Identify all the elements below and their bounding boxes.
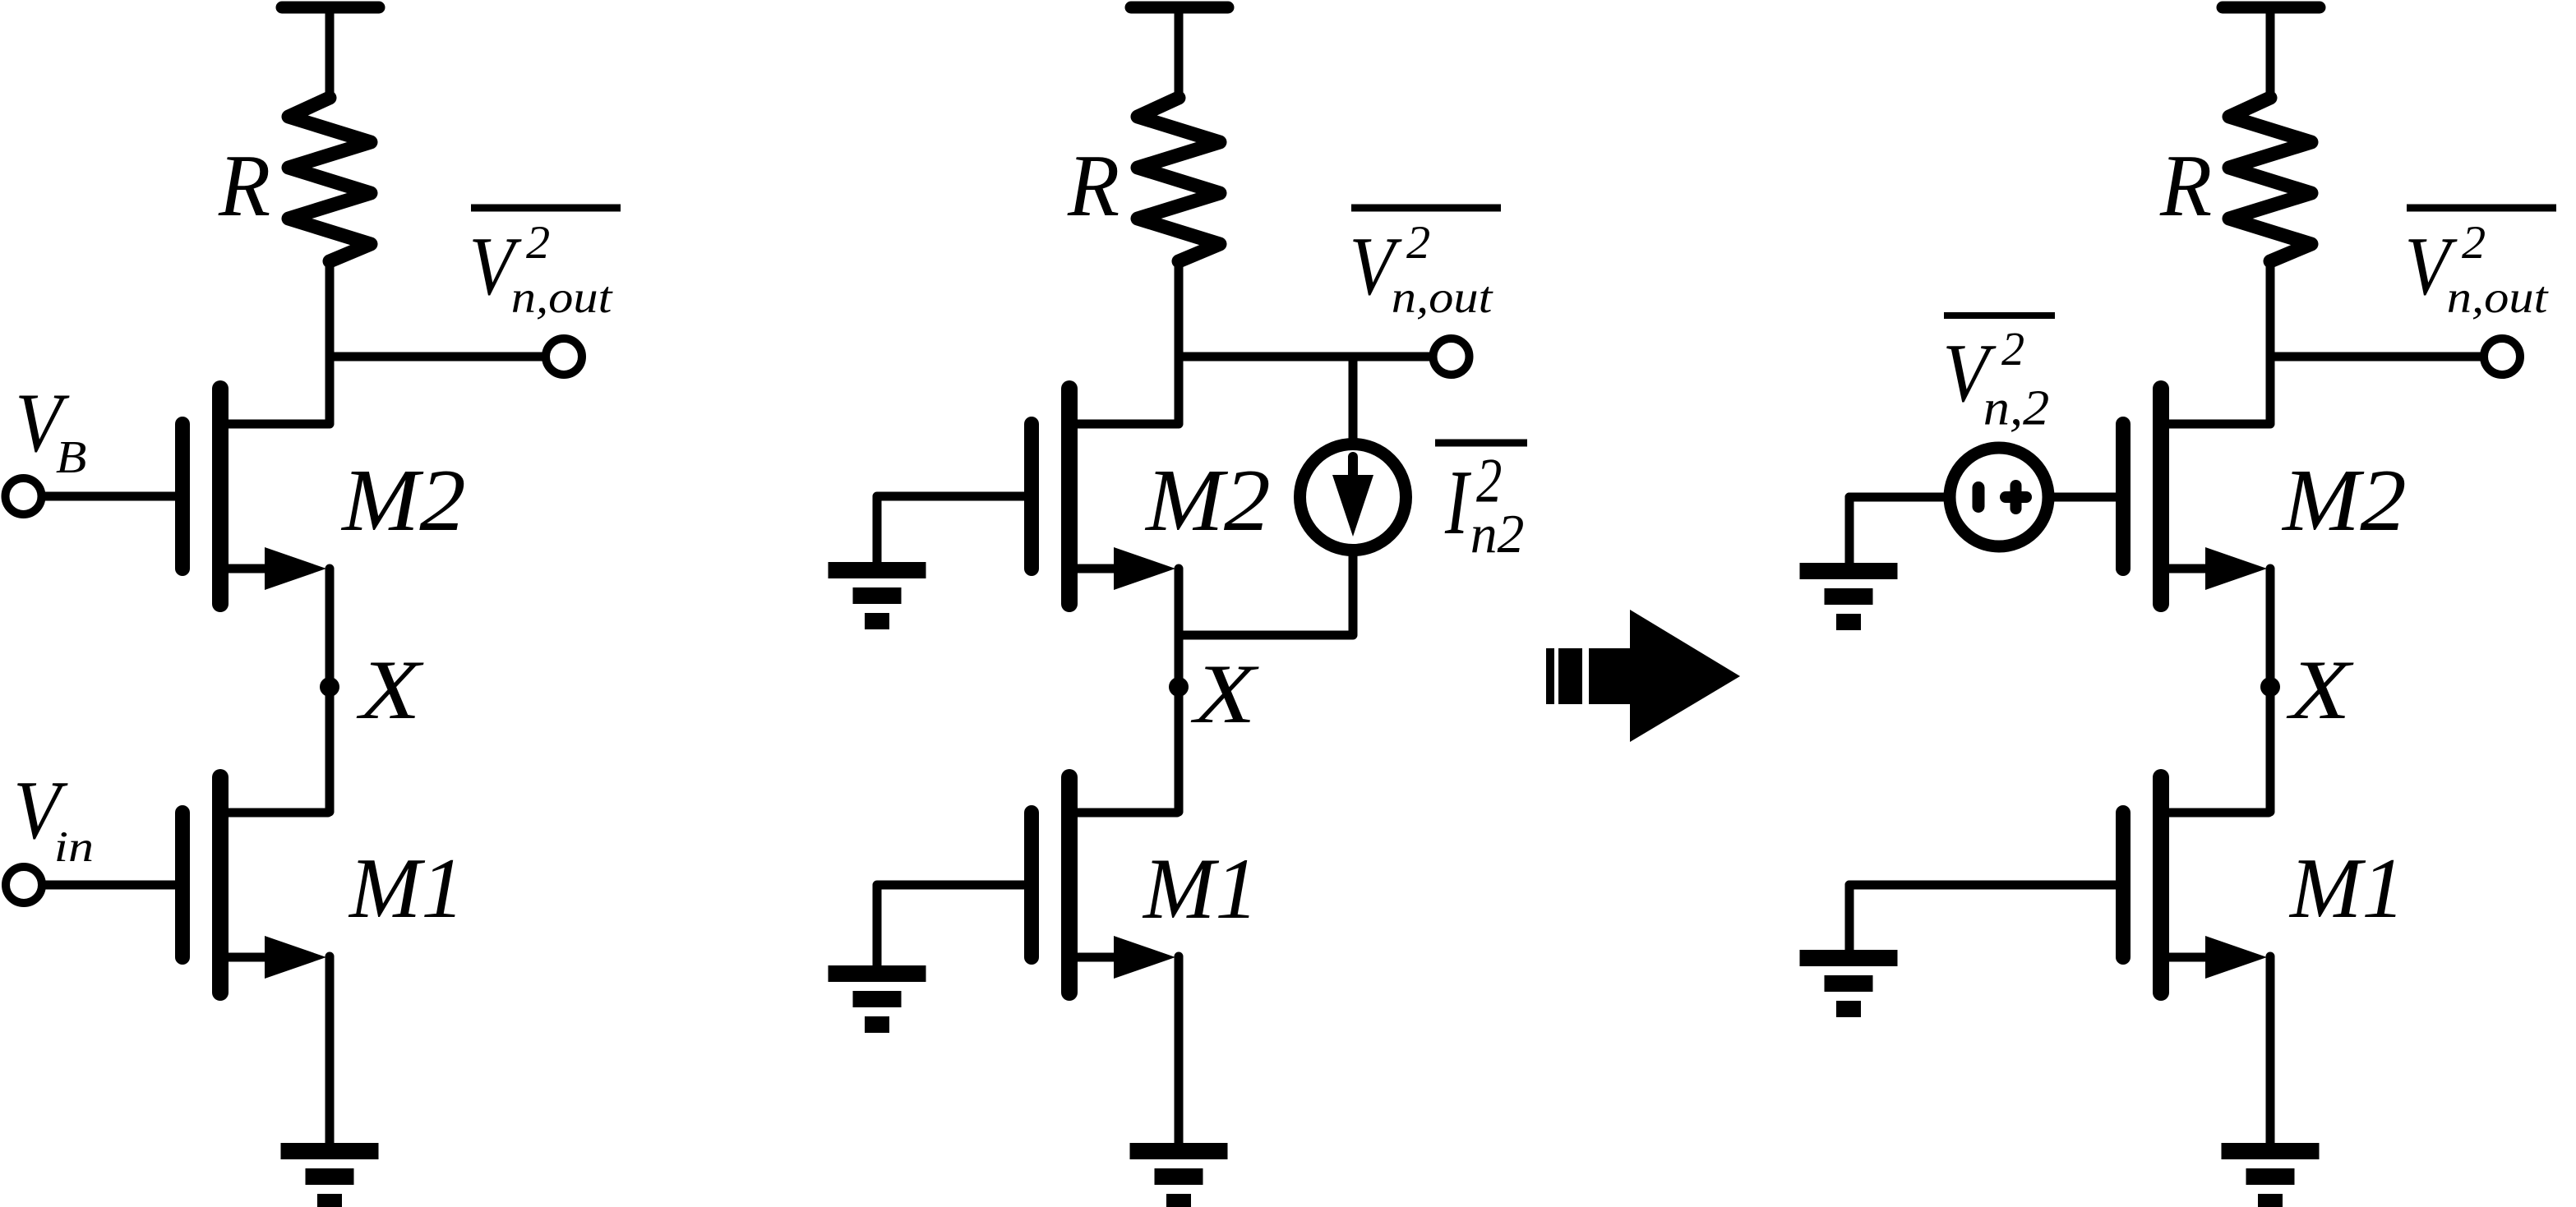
- label V^2_n,2 overline (right circuit): [1944, 312, 2055, 319]
- ground middle circuit M2 gate bar 2: [853, 587, 902, 604]
- svg-text:R: R: [218, 136, 270, 234]
- transistor M2 right source wire: [2165, 564, 2219, 574]
- svg-text:in: in: [54, 823, 94, 871]
- output terminal circle (left circuit): [546, 339, 582, 375]
- transform arrow shaft: [1589, 648, 1630, 704]
- wire M2 gate to ground (middle circuit): [877, 496, 1032, 565]
- transistor M1 right gate bar: [2116, 813, 2131, 957]
- svg-text:X: X: [356, 643, 424, 737]
- VDD supply rail bar (left circuit): [282, 2, 379, 14]
- transistor M2 left channel bar: [212, 389, 229, 604]
- transistor M2 middle source wire: [1073, 564, 1128, 574]
- VDD supply rail bar (right circuit): [2223, 2, 2320, 14]
- svg-text:2: 2: [526, 218, 550, 269]
- svg-text:M2: M2: [2281, 451, 2407, 549]
- ground middle circuit M1 gate bar 3: [865, 1016, 889, 1033]
- noise current source I^2_n2 circle (middle circuit): [1300, 445, 1406, 551]
- wire output node to terminal (left circuit): [330, 352, 546, 362]
- ground middle circuit M2 gate bar 3: [865, 613, 889, 629]
- transistor M2 right drain wire: [2165, 420, 2269, 429]
- svg-text:X: X: [2286, 643, 2354, 737]
- wire V_B to M2 gate (left circuit): [44, 492, 182, 501]
- wire VDD to resistor (middle circuit): [1175, 10, 1184, 99]
- resistor R (middle circuit): [1138, 98, 1220, 261]
- output terminal circle (right circuit): [2484, 339, 2520, 375]
- svg-text:R: R: [2159, 136, 2212, 234]
- current source arrow head (middle circuit): [1332, 475, 1373, 537]
- wire resistor to M2 drain (middle circuit): [1175, 260, 1184, 424]
- wire resistor to M2 drain (left circuit): [325, 260, 335, 424]
- transistor M1 middle source arrow: [1114, 936, 1175, 979]
- transistor M1 middle channel bar: [1061, 777, 1078, 993]
- wire M1 source to ground (right circuit): [2266, 956, 2275, 1146]
- svg-text:X: X: [1190, 647, 1258, 741]
- svg-text:M1: M1: [2288, 841, 2405, 936]
- ground right circuit M2 gate bar 2: [1825, 588, 1873, 605]
- ground right circuit main bar 2: [2246, 1168, 2295, 1185]
- voltage source minus mark (right circuit): [1973, 488, 1985, 507]
- wire M1 gate to ground (middle circuit): [877, 885, 1032, 969]
- wire ground to noise source (right circuit): [1849, 493, 1948, 502]
- svg-text:2: 2: [1406, 218, 1430, 269]
- transistor M1 right source wire: [2165, 953, 2219, 962]
- transistor M1 right source arrow: [2205, 936, 2267, 979]
- ground middle circuit main bar 3: [1166, 1194, 1191, 1207]
- transistor M2 right gate bar: [2116, 424, 2131, 569]
- transistor M1 right drain wire: [2165, 809, 2269, 818]
- svg-text:M1: M1: [1142, 841, 1258, 937]
- wire M1 source to ground (left circuit): [325, 956, 335, 1146]
- svg-text:M2: M2: [1144, 451, 1271, 550]
- current source arrow stem (middle circuit): [1348, 457, 1358, 477]
- transform arrow tail bar 1: [1546, 648, 1554, 704]
- transistor M1 middle drain wire: [1073, 809, 1177, 818]
- wire M1 gate ground drop (right circuit): [1845, 885, 1854, 953]
- ground right circuit M1 gate bar 3: [1836, 1001, 1861, 1017]
- noise voltage source V^2_n,2 circle (right circuit): [1950, 448, 2048, 546]
- resistor R (right circuit): [2229, 98, 2311, 261]
- svg-text:n,out: n,out: [1392, 274, 1494, 323]
- ground right circuit M1 gate bar 2: [1825, 975, 1873, 992]
- wire output to noise current source (middle circuit): [1349, 357, 1358, 445]
- wire VDD to resistor (right circuit): [2266, 10, 2275, 99]
- svg-text:n,2: n,2: [1983, 380, 2050, 435]
- transform arrow tail bar 2: [1558, 648, 1582, 704]
- ground middle circuit main bar 1: [1130, 1143, 1228, 1159]
- transistor M2 middle source arrow: [1114, 547, 1175, 590]
- transistor M2 middle gate bar: [1024, 424, 1039, 569]
- wire noise source to M2 gate (right circuit): [2050, 493, 2124, 502]
- wire M1 gate to ground (right circuit): [1849, 881, 2124, 890]
- ground right circuit M1 gate bar 1: [1800, 950, 1898, 966]
- ground right circuit main bar 1: [2222, 1143, 2320, 1159]
- wire V_in to M1 gate (left circuit): [44, 881, 182, 890]
- transform arrow head: [1630, 610, 1740, 742]
- output terminal circle (middle circuit): [1433, 339, 1470, 375]
- transistor M2 left drain wire: [224, 420, 328, 429]
- label V^2_n,out overline (right circuit): [2407, 205, 2556, 212]
- transistor M2 middle channel bar: [1061, 389, 1078, 604]
- transistor M1 left source arrow: [265, 936, 326, 979]
- transistor M2 right channel bar: [2153, 389, 2169, 604]
- ground left circuit main bar 1: [281, 1143, 379, 1159]
- transistor M1 left gate bar: [175, 813, 190, 957]
- wire resistor to M2 drain (right circuit): [2266, 260, 2275, 424]
- wire M2 source to M1 drain (right circuit): [2266, 569, 2275, 812]
- ground middle circuit M2 gate bar 1: [829, 562, 926, 578]
- wire M2 source to M1 drain (middle circuit): [1175, 569, 1184, 812]
- svg-text:n,out: n,out: [2447, 274, 2550, 323]
- voltage source plus mark horizontal (right circuit): [2006, 491, 2026, 503]
- ground right circuit main bar 3: [2258, 1194, 2283, 1207]
- transistor M1 left source wire: [224, 953, 279, 962]
- ground right circuit M2 gate bar 1: [1800, 563, 1898, 579]
- wire current source to node X branch (middle circuit): [1179, 550, 1353, 635]
- node X junction dot (right circuit): [2260, 677, 2280, 697]
- wire M1 source to ground (middle circuit): [1175, 956, 1184, 1146]
- wire M2 source to M1 drain (left circuit): [325, 569, 335, 812]
- svg-text:M1: M1: [348, 841, 464, 936]
- svg-text:n2: n2: [1470, 504, 1525, 564]
- svg-text:I: I: [1444, 451, 1472, 554]
- label V^2_n,out overline (middle circuit): [1351, 205, 1501, 212]
- terminal circle V_B (left circuit): [6, 478, 42, 514]
- label V^2_n,out overline (left circuit): [471, 205, 621, 212]
- transistor M2 left source wire: [224, 564, 279, 574]
- wire output node to terminal (middle circuit): [1179, 352, 1434, 362]
- svg-text:R: R: [1067, 136, 1119, 234]
- transistor M2 left source arrow: [265, 547, 326, 590]
- wire noise source ground drop (right circuit): [1845, 497, 1854, 566]
- svg-text:2: 2: [2462, 218, 2486, 269]
- ground middle circuit M1 gate bar 2: [853, 991, 902, 1007]
- transistor M1 left channel bar: [212, 777, 229, 993]
- voltage source plus mark vertical (right circuit): [2010, 486, 2022, 509]
- transistor M1 middle gate bar: [1024, 813, 1039, 957]
- transistor M2 left gate bar: [175, 424, 190, 569]
- ground middle circuit main bar 2: [1155, 1168, 1203, 1185]
- svg-text:n,out: n,out: [511, 274, 614, 323]
- transistor M1 middle source wire: [1073, 953, 1128, 962]
- node X junction dot (left circuit): [320, 677, 339, 697]
- transistor M1 right channel bar: [2153, 777, 2169, 993]
- wire VDD to resistor (left circuit): [325, 10, 335, 99]
- node X junction dot (middle circuit): [1169, 677, 1189, 697]
- terminal circle V_in (left circuit): [6, 867, 42, 903]
- transistor M2 middle drain wire: [1073, 420, 1177, 429]
- VDD supply rail bar (middle circuit): [1131, 2, 1228, 14]
- svg-text:2: 2: [2001, 323, 2024, 375]
- label I^2_n2 overline (middle circuit): [1435, 440, 1527, 447]
- ground left circuit main bar 2: [306, 1168, 354, 1185]
- resistor R (left circuit): [289, 98, 371, 261]
- ground right circuit M2 gate bar 3: [1836, 614, 1861, 630]
- ground left circuit main bar 3: [317, 1194, 342, 1207]
- ground middle circuit M1 gate bar 1: [829, 965, 926, 982]
- wire output node to terminal (right circuit): [2270, 352, 2485, 362]
- svg-text:B: B: [56, 431, 87, 482]
- svg-text:M2: M2: [340, 451, 466, 549]
- transistor M1 left drain wire: [224, 809, 328, 818]
- transistor M2 right source arrow: [2205, 547, 2267, 590]
